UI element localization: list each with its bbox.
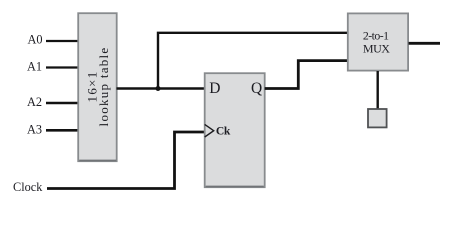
pin label Ck <box>216 125 231 138</box>
2-to-1 MUX block U2 <box>348 13 408 70</box>
svg-text:Q: Q <box>251 80 262 97</box>
wire A0 input stub <box>46 40 79 42</box>
node Clock label <box>13 180 43 194</box>
wire lookup table output to D input <box>117 87 206 90</box>
16x1 lookup table block <box>78 13 117 161</box>
wire A1 input stub <box>46 66 79 68</box>
svg-text:Clock: Clock <box>13 180 43 194</box>
pin label D <box>209 80 220 97</box>
pin label Q <box>251 80 262 97</box>
wire A3 input stub <box>46 129 79 132</box>
node A0 label <box>28 33 43 47</box>
node A2 label <box>27 95 42 109</box>
svg-text:A3: A3 <box>27 122 42 136</box>
16x1 lookup table label (rotated) <box>85 47 112 127</box>
svg-text:A1: A1 <box>27 60 42 74</box>
svg-text:Ck: Ck <box>216 125 231 138</box>
node A1 label <box>27 60 42 74</box>
svg-text:D: D <box>209 80 220 97</box>
wire MUX select line down <box>377 71 379 109</box>
svg-text:MUX: MUX <box>363 42 390 56</box>
wire clock: horizontal run, vertical rise, into Ck <box>47 132 205 189</box>
wire branch up from junction to MUX upper input <box>158 33 348 89</box>
svg-text:2-to-1: 2-to-1 <box>363 28 389 42</box>
wire Q output to MUX lower input <box>265 61 348 89</box>
D flip-flop block U1 <box>205 73 265 187</box>
wire A2 input stub <box>46 102 79 105</box>
MUX label <box>363 28 390 55</box>
svg-text:A2: A2 <box>27 95 42 109</box>
svg-text:A0: A0 <box>28 33 43 47</box>
junction dot on output wire <box>156 86 161 91</box>
select input square terminal <box>368 109 387 127</box>
node A3 label <box>27 122 42 136</box>
clock edge triangle on flip-flop <box>205 124 214 137</box>
wire MUX output <box>409 42 441 45</box>
